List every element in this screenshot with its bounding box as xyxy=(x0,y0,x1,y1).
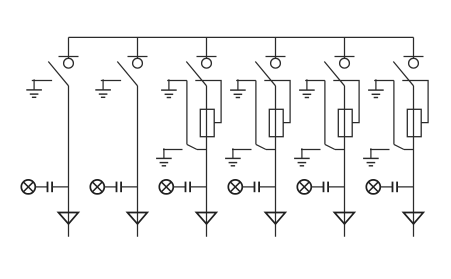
wire: main feeder, branch 2 xyxy=(137,86,139,237)
indicator lamp, branch 4 xyxy=(228,180,242,194)
earth contact bar (lower), branch 3 xyxy=(163,149,183,151)
indicator lamp, branch 5 xyxy=(297,180,311,194)
indicator lamp, branch 3 xyxy=(159,180,173,194)
wire: lamp lead, branch 2 xyxy=(104,186,116,188)
wire: earthing-switch riser, branch 4 xyxy=(255,81,257,145)
wire: bus drop, branch 2 xyxy=(137,37,139,58)
wire: bus drop, branch 5 xyxy=(344,37,346,58)
resistor (closing resistor), branch 4 xyxy=(269,109,283,136)
surge arrester (triangle), branch 5 xyxy=(334,213,354,224)
wire: capacitor to feeder, branch 1 xyxy=(52,186,68,188)
capacitor, branch 5 xyxy=(324,182,329,193)
ground (lower), branch 6 xyxy=(363,148,379,166)
wire: bus drop, branch 1 xyxy=(68,37,70,58)
disconnector fixed-contact tick, branch 4 xyxy=(266,56,286,58)
disconnector contact circle, branch 5 xyxy=(340,58,350,68)
disconnector blade (open), branch 2 xyxy=(117,62,137,86)
wire: capacitor to feeder, branch 5 xyxy=(328,186,344,188)
disconnector contact circle, branch 3 xyxy=(202,58,212,68)
earth contact bar (lower), branch 5 xyxy=(301,149,321,151)
indicator lamp, branch 2 xyxy=(90,180,104,194)
wire: earthing-switch riser, branch 3 xyxy=(186,81,188,145)
resistor (closing resistor), branch 3 xyxy=(200,109,214,136)
wire: earthing-switch riser, branch 5 xyxy=(324,81,326,145)
wire: resistor bypass, branch 6 xyxy=(402,81,428,123)
surge arrester (triangle), branch 6 xyxy=(403,213,423,224)
wire: lamp lead, branch 6 xyxy=(380,186,392,188)
ground, branch 1 xyxy=(26,79,42,97)
capacitor, branch 4 xyxy=(255,182,260,193)
ground (upper), branch 5 xyxy=(299,79,315,97)
earthing switch blade, branch 5 xyxy=(325,144,335,149)
disconnector blade (open), branch 6 xyxy=(393,62,413,86)
wire: earthing switch link to feeder, branch 6 xyxy=(404,149,414,151)
capacitor, branch 6 xyxy=(393,182,398,193)
earthing switch blade, branch 6 xyxy=(394,144,404,149)
disconnector contact circle, branch 1 xyxy=(64,58,74,68)
disconnector contact circle, branch 4 xyxy=(271,58,281,68)
ground (upper), branch 3 xyxy=(161,79,177,97)
wire: main feeder, branch 6 xyxy=(413,86,415,237)
wire: capacitor to feeder, branch 3 xyxy=(190,186,206,188)
disconnector fixed-contact tick, branch 5 xyxy=(335,56,355,58)
disconnector contact circle, branch 2 xyxy=(133,58,143,68)
disconnector fixed-contact tick, branch 6 xyxy=(404,56,424,58)
ground (upper), branch 6 xyxy=(368,79,384,97)
earth contact bar of disconnector, branch 4 xyxy=(236,80,256,82)
wire: bus drop, branch 6 xyxy=(413,37,415,58)
ground (upper), branch 4 xyxy=(230,79,246,97)
indicator lamp, branch 1 xyxy=(21,180,35,194)
wire: bus drop, branch 4 xyxy=(275,37,277,58)
wire: main feeder, branch 1 xyxy=(68,86,70,237)
disconnector blade (open), branch 3 xyxy=(186,62,206,86)
wire: earthing switch link to feeder, branch 4 xyxy=(266,149,276,151)
wire: lamp lead, branch 4 xyxy=(242,186,254,188)
earth contact bar of disconnector, branch 6 xyxy=(374,80,394,82)
wire: capacitor to feeder, branch 4 xyxy=(259,186,275,188)
wire: resistor bypass, branch 3 xyxy=(195,81,221,123)
wire: main feeder, branch 3 xyxy=(206,86,208,237)
earth contact bar of disconnector, branch 1 xyxy=(32,80,52,82)
earth contact bar (lower), branch 6 xyxy=(370,149,390,151)
wire: lamp lead, branch 1 xyxy=(35,186,47,188)
disconnector blade (open), branch 4 xyxy=(255,62,275,86)
surge arrester (triangle), branch 3 xyxy=(196,213,216,224)
wire: capacitor to feeder, branch 2 xyxy=(121,186,137,188)
bus: top horizontal busbar xyxy=(69,36,414,38)
earthing switch blade, branch 3 xyxy=(187,144,197,149)
disconnector blade (open), branch 5 xyxy=(324,62,344,86)
wire: main feeder, branch 4 xyxy=(275,86,277,237)
wire: resistor bypass, branch 5 xyxy=(333,81,359,123)
surge arrester (triangle), branch 2 xyxy=(127,213,147,224)
disconnector blade (open), branch 1 xyxy=(48,62,68,86)
wire: resistor bypass, branch 4 xyxy=(264,81,290,123)
resistor (closing resistor), branch 5 xyxy=(338,109,352,136)
earth contact bar of disconnector, branch 2 xyxy=(101,80,121,82)
capacitor, branch 2 xyxy=(117,182,122,193)
resistor (closing resistor), branch 6 xyxy=(407,109,421,136)
wire: lamp lead, branch 5 xyxy=(311,186,323,188)
surge arrester (triangle), branch 1 xyxy=(58,213,78,224)
ground (lower), branch 4 xyxy=(225,148,241,166)
earth contact bar of disconnector, branch 5 xyxy=(305,80,325,82)
disconnector fixed-contact tick, branch 1 xyxy=(59,56,79,58)
wire: earthing switch link to feeder, branch 5 xyxy=(335,149,345,151)
indicator lamp, branch 6 xyxy=(366,180,380,194)
wire: bus drop, branch 3 xyxy=(206,37,208,58)
ground (lower), branch 3 xyxy=(156,148,172,166)
earth contact bar of disconnector, branch 3 xyxy=(167,80,187,82)
earthing switch blade, branch 4 xyxy=(256,144,266,149)
wire: lamp lead, branch 3 xyxy=(173,186,185,188)
capacitor, branch 3 xyxy=(186,182,191,193)
wire: earthing-switch riser, branch 6 xyxy=(393,81,395,145)
disconnector fixed-contact tick, branch 3 xyxy=(197,56,217,58)
earth contact bar (lower), branch 4 xyxy=(232,149,252,151)
disconnector contact circle, branch 6 xyxy=(409,58,419,68)
wire: main feeder, branch 5 xyxy=(344,86,346,237)
wire: earthing switch link to feeder, branch 3 xyxy=(197,149,207,151)
ground, branch 2 xyxy=(95,79,111,97)
disconnector fixed-contact tick, branch 2 xyxy=(128,56,148,58)
capacitor, branch 1 xyxy=(48,182,53,193)
wire: capacitor to feeder, branch 6 xyxy=(397,186,413,188)
surge arrester (triangle), branch 4 xyxy=(265,213,285,224)
ground (lower), branch 5 xyxy=(294,148,310,166)
